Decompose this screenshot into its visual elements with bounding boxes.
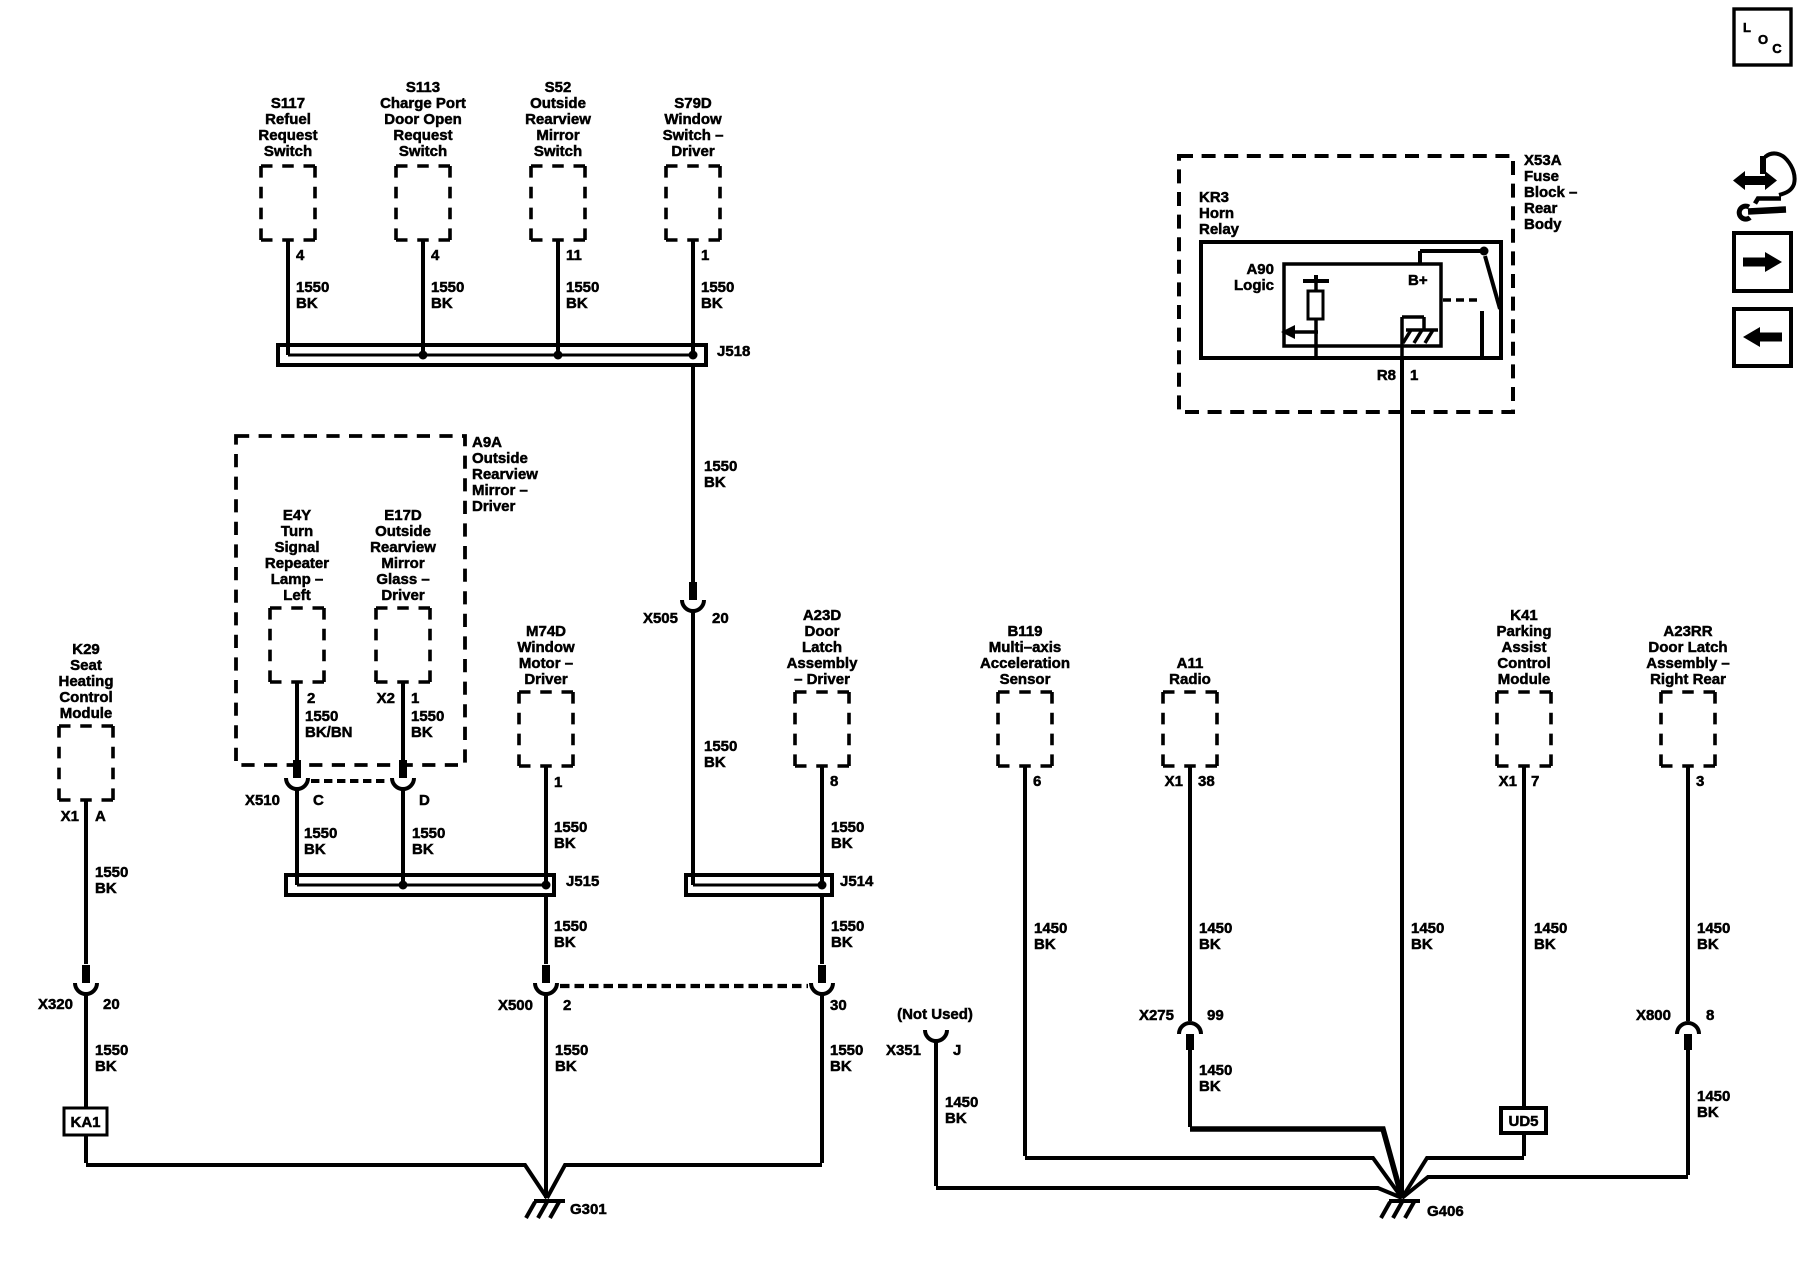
svg-text:J: J	[953, 1042, 961, 1059]
svg-text:BK: BK	[95, 1058, 117, 1075]
svg-text:BK: BK	[1697, 1104, 1719, 1121]
svg-text:1450: 1450	[1697, 920, 1730, 937]
svg-text:Outside: Outside	[530, 95, 586, 112]
svg-text:Driver: Driver	[381, 587, 425, 604]
svg-text:Acceleration: Acceleration	[980, 655, 1070, 672]
svg-text:G301: G301	[570, 1201, 607, 1218]
svg-text:Right Rear: Right Rear	[1650, 671, 1726, 688]
svg-text:Driver: Driver	[524, 671, 568, 688]
svg-text:Charge Port: Charge Port	[380, 95, 466, 112]
svg-text:Switch –: Switch –	[663, 127, 724, 144]
svg-text:Rearview: Rearview	[472, 466, 538, 483]
svg-text:6: 6	[1033, 773, 1041, 790]
svg-text:1450: 1450	[1034, 920, 1067, 937]
svg-text:1550: 1550	[831, 918, 864, 935]
svg-text:Body: Body	[1524, 216, 1562, 233]
svg-text:Request: Request	[393, 127, 452, 144]
svg-text:C: C	[313, 792, 324, 809]
svg-text:BK: BK	[704, 754, 726, 771]
svg-text:Switch: Switch	[264, 143, 312, 160]
svg-text:Module: Module	[60, 705, 113, 722]
svg-text:X320: X320	[38, 996, 73, 1013]
svg-text:Heating: Heating	[58, 673, 113, 690]
svg-text:Switch: Switch	[534, 143, 582, 160]
svg-text:30: 30	[830, 997, 847, 1014]
svg-text:Rearview: Rearview	[370, 539, 436, 556]
svg-text:BK: BK	[1697, 936, 1719, 953]
svg-text:Assembly –: Assembly –	[1646, 655, 1729, 672]
svg-text:S52: S52	[545, 79, 572, 96]
svg-text:J515: J515	[566, 873, 599, 890]
svg-text:20: 20	[712, 610, 729, 627]
svg-text:Latch: Latch	[802, 639, 842, 656]
svg-text:Assist: Assist	[1501, 639, 1546, 656]
svg-text:S117: S117	[271, 95, 305, 112]
svg-text:K41: K41	[1510, 607, 1538, 624]
svg-text:Glass –: Glass –	[376, 571, 429, 588]
svg-text:1550: 1550	[95, 864, 128, 881]
svg-text:BK: BK	[412, 841, 434, 858]
svg-text:Window: Window	[664, 111, 722, 128]
svg-text:BK: BK	[1411, 936, 1433, 953]
svg-text:R8: R8	[1377, 367, 1396, 384]
svg-text:4: 4	[296, 247, 305, 264]
svg-text:X510: X510	[245, 792, 280, 809]
svg-text:X800: X800	[1636, 1007, 1671, 1024]
svg-text:1: 1	[701, 247, 709, 264]
svg-text:J514: J514	[840, 873, 874, 890]
svg-text:B119: B119	[1007, 623, 1042, 640]
svg-text:BK: BK	[1199, 1078, 1221, 1095]
svg-text:Relay: Relay	[1199, 221, 1240, 238]
svg-text:BK: BK	[945, 1110, 967, 1127]
svg-text:1550: 1550	[95, 1042, 128, 1059]
svg-text:1550: 1550	[554, 918, 587, 935]
svg-text:Lamp –: Lamp –	[271, 571, 324, 588]
svg-text:A23D: A23D	[803, 607, 842, 624]
svg-text:O: O	[1758, 32, 1768, 47]
svg-text:X505: X505	[643, 610, 678, 627]
svg-text:S79D: S79D	[674, 95, 712, 112]
svg-text:J518: J518	[717, 343, 750, 360]
svg-text:8: 8	[830, 773, 838, 790]
svg-text:BK: BK	[566, 295, 588, 312]
svg-text:1450: 1450	[1411, 920, 1444, 937]
svg-text:X53A: X53A	[1524, 152, 1562, 169]
svg-text:BK/BN: BK/BN	[305, 724, 353, 741]
svg-text:A9A: A9A	[472, 434, 502, 451]
svg-text:Control: Control	[59, 689, 112, 706]
svg-text:11: 11	[566, 247, 582, 264]
svg-text:Signal: Signal	[274, 539, 319, 556]
svg-text:Motor –: Motor –	[519, 655, 573, 672]
svg-text:1450: 1450	[1534, 920, 1567, 937]
svg-text:X1: X1	[1499, 773, 1517, 790]
svg-text:Radio: Radio	[1169, 671, 1211, 688]
svg-text:1550: 1550	[704, 458, 737, 475]
svg-text:1550: 1550	[566, 279, 599, 296]
svg-text:1550: 1550	[830, 1042, 863, 1059]
svg-text:X500: X500	[498, 997, 533, 1014]
svg-text:Left: Left	[283, 587, 311, 604]
svg-text:BK: BK	[831, 835, 853, 852]
svg-text:D: D	[419, 792, 430, 809]
svg-text:1450: 1450	[1199, 920, 1232, 937]
svg-text:8: 8	[1706, 1007, 1714, 1024]
svg-text:1550: 1550	[411, 708, 444, 725]
svg-text:BK: BK	[296, 295, 318, 312]
svg-text:Parking: Parking	[1496, 623, 1551, 640]
svg-text:X1: X1	[1165, 773, 1183, 790]
svg-text:Driver: Driver	[671, 143, 715, 160]
svg-text:1550: 1550	[296, 279, 329, 296]
svg-text:X351: X351	[886, 1042, 921, 1059]
svg-text:S113: S113	[406, 79, 440, 96]
svg-text:A: A	[95, 808, 106, 825]
svg-text:X2: X2	[377, 690, 395, 707]
svg-text:E4Y: E4Y	[283, 507, 311, 524]
svg-text:1450: 1450	[1697, 1088, 1730, 1105]
svg-text:Door Open: Door Open	[384, 111, 462, 128]
svg-text:Mirror –: Mirror –	[472, 482, 528, 499]
svg-text:BK: BK	[1534, 936, 1556, 953]
svg-text:M74D: M74D	[526, 623, 566, 640]
svg-text:99: 99	[1207, 1007, 1224, 1024]
svg-text:Request: Request	[258, 127, 317, 144]
svg-text:1550: 1550	[554, 819, 587, 836]
svg-text:2: 2	[563, 997, 571, 1014]
svg-text:1550: 1550	[412, 825, 445, 842]
svg-text:– Driver: – Driver	[794, 671, 850, 688]
svg-text:38: 38	[1198, 773, 1215, 790]
svg-text:1: 1	[1410, 367, 1418, 384]
svg-text:7: 7	[1531, 773, 1539, 790]
svg-text:Horn: Horn	[1199, 205, 1234, 222]
svg-text:1: 1	[554, 774, 562, 791]
svg-text:BK: BK	[831, 934, 853, 951]
svg-text:A90: A90	[1246, 261, 1274, 278]
svg-text:BK: BK	[830, 1058, 852, 1075]
svg-text:E17D: E17D	[384, 507, 422, 524]
svg-text:BK: BK	[95, 880, 117, 897]
svg-text:BK: BK	[554, 835, 576, 852]
svg-text:1550: 1550	[704, 738, 737, 755]
svg-text:1450: 1450	[945, 1094, 978, 1111]
svg-text:Refuel: Refuel	[265, 111, 311, 128]
svg-text:Window: Window	[517, 639, 575, 656]
svg-text:Rearview: Rearview	[525, 111, 591, 128]
svg-text:BK: BK	[431, 295, 453, 312]
svg-text:Logic: Logic	[1234, 277, 1274, 294]
svg-text:1550: 1550	[701, 279, 734, 296]
svg-text:BK: BK	[555, 1058, 577, 1075]
svg-text:Door: Door	[805, 623, 840, 640]
svg-text:BK: BK	[1199, 936, 1221, 953]
svg-text:C: C	[1772, 41, 1782, 56]
svg-text:KA1: KA1	[70, 1114, 100, 1131]
svg-text:4: 4	[431, 247, 440, 264]
svg-text:Sensor: Sensor	[1000, 671, 1051, 688]
svg-text:Assembly: Assembly	[787, 655, 859, 672]
svg-text:A23RR: A23RR	[1663, 623, 1712, 640]
svg-text:BK: BK	[304, 841, 326, 858]
svg-text:Fuse: Fuse	[1524, 168, 1559, 185]
svg-text:(Not Used): (Not Used)	[897, 1006, 973, 1023]
svg-text:1550: 1550	[431, 279, 464, 296]
svg-text:1550: 1550	[831, 819, 864, 836]
svg-text:G406: G406	[1427, 1203, 1464, 1220]
svg-text:Door Latch: Door Latch	[1648, 639, 1727, 656]
svg-text:UD5: UD5	[1508, 1113, 1538, 1130]
svg-text:A11: A11	[1177, 655, 1204, 672]
svg-text:Repeater: Repeater	[265, 555, 329, 572]
svg-text:KR3: KR3	[1199, 189, 1229, 206]
svg-text:K29: K29	[72, 641, 100, 658]
svg-text:Switch: Switch	[399, 143, 447, 160]
svg-text:B+: B+	[1408, 272, 1428, 289]
svg-text:Multi–axis: Multi–axis	[989, 639, 1062, 656]
svg-text:BK: BK	[1034, 936, 1056, 953]
svg-text:BK: BK	[704, 474, 726, 491]
svg-text:1450: 1450	[1199, 1062, 1232, 1079]
svg-text:1550: 1550	[555, 1042, 588, 1059]
svg-text:Mirror: Mirror	[381, 555, 425, 572]
svg-text:Driver: Driver	[472, 498, 516, 515]
svg-text:3: 3	[1696, 773, 1704, 790]
svg-text:Module: Module	[1498, 671, 1551, 688]
svg-text:BK: BK	[701, 295, 723, 312]
svg-text:BK: BK	[411, 724, 433, 741]
svg-text:Rear: Rear	[1524, 200, 1558, 217]
svg-text:1550: 1550	[305, 708, 338, 725]
svg-text:Block –: Block –	[1524, 184, 1577, 201]
svg-text:Outside: Outside	[472, 450, 528, 467]
svg-text:Outside: Outside	[375, 523, 431, 540]
svg-text:X275: X275	[1139, 1007, 1174, 1024]
svg-text:20: 20	[103, 996, 120, 1013]
svg-text:2: 2	[307, 690, 315, 707]
svg-text:L: L	[1743, 20, 1751, 35]
svg-text:X1: X1	[61, 808, 79, 825]
svg-text:1550: 1550	[304, 825, 337, 842]
svg-text:BK: BK	[554, 934, 576, 951]
svg-text:Turn: Turn	[281, 523, 313, 540]
svg-text:Mirror: Mirror	[536, 127, 580, 144]
svg-text:Control: Control	[1497, 655, 1550, 672]
svg-text:Seat: Seat	[70, 657, 102, 674]
svg-text:1: 1	[411, 690, 419, 707]
